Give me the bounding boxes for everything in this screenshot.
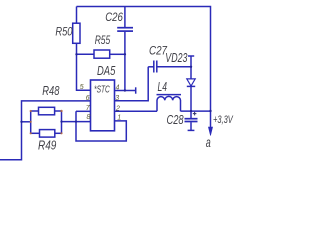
svg-text:4: 4 (116, 84, 120, 91)
svg-text:1: 1 (117, 115, 121, 122)
resistor R49 (31, 132, 40, 134)
wire pin2 to L4 (115, 110, 158, 112)
wire R55 to C26 line (110, 53, 125, 55)
capacitor C26 (124, 7, 126, 28)
wire top rail (77, 7, 211, 112)
svg-text:L4: L4 (158, 80, 168, 94)
svg-text:+3,3V: +3,3V (213, 114, 234, 126)
capacitor C27 (148, 66, 153, 68)
svg-text:8: 8 (87, 114, 91, 121)
svg-text:VD23: VD23 (165, 51, 187, 65)
wire pin7 to pin1 loop (76, 111, 126, 141)
wire pin6 down left (0, 101, 91, 160)
wire pin4 with T end (115, 90, 136, 92)
wire pin3 to C27 (115, 67, 149, 101)
svg-text:C28: C28 (167, 112, 185, 127)
svg-text:R48: R48 (42, 83, 60, 98)
svg-text:DA5: DA5 (97, 63, 116, 78)
svg-text:2: 2 (115, 105, 120, 112)
svg-text:R50: R50 (55, 25, 72, 39)
capacitor C28 (190, 111, 192, 118)
inductor L4 (157, 96, 181, 111)
power arrow (210, 111, 212, 129)
wire pin8 (62, 121, 91, 123)
IC DA5 body (91, 80, 115, 131)
diode VD23 line with T top (190, 56, 192, 111)
svg-text:a: a (206, 134, 211, 150)
svg-text:3: 3 (115, 95, 119, 102)
wire right bus (61, 111, 63, 133)
wire pin7 (76, 110, 91, 112)
svg-text:6: 6 (86, 95, 90, 102)
wire left bus (30, 111, 32, 133)
wire L4 to right rail (181, 110, 211, 112)
wire R50 to R55 (77, 53, 95, 55)
resistor R55 (94, 50, 110, 58)
svg-text:*STC: *STC (94, 85, 110, 96)
plus mark of C28 (193, 112, 197, 116)
svg-text:R55: R55 (95, 33, 111, 47)
svg-text:5: 5 (80, 84, 84, 91)
wire tap to divider (22, 121, 31, 123)
wire R50 bottom to pin5 (77, 43, 91, 90)
svg-text:C26: C26 (105, 10, 123, 24)
svg-text:R49: R49 (38, 138, 56, 153)
junction dots (20, 53, 211, 123)
resistor R50 (76, 7, 78, 24)
resistor R48 (31, 110, 39, 112)
